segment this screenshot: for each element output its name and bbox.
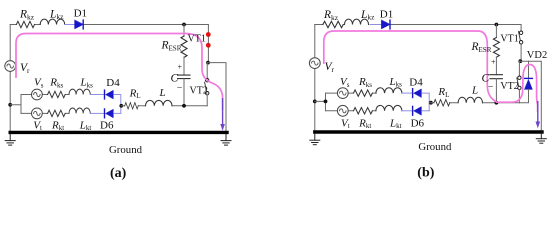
svg-text:D4: D4 xyxy=(409,77,423,89)
voltage source Vs (b) xyxy=(337,88,348,99)
wire: D1 anode lead (blue) xyxy=(65,24,75,26)
svg-text:Vr: Vr xyxy=(325,61,335,74)
svg-text:Ground: Ground xyxy=(418,141,452,153)
wire: capacitor bottom lead (b) xyxy=(495,79,497,103)
resistor Rks xyxy=(48,91,66,97)
switch VT1 upper contact (b, open) xyxy=(519,31,522,34)
switch VT2 upper lead xyxy=(206,63,208,79)
node M junction dot xyxy=(206,61,210,65)
wire: D4 lead (b, blue) xyxy=(402,92,413,94)
ground bus (a) xyxy=(10,131,227,134)
resistor Resr xyxy=(181,36,187,57)
svg-text:Rkz: Rkz xyxy=(19,9,35,22)
svg-text:Rkt: Rkt xyxy=(358,117,371,130)
svg-text:Rks: Rks xyxy=(49,77,63,90)
wire: phase-s branch (b) xyxy=(326,92,376,94)
resistor Rkt xyxy=(48,110,66,116)
svg-text:Lks: Lks xyxy=(389,76,403,89)
switch VT2 upper lead (b) xyxy=(518,61,520,76)
switch VT2 blade (open) xyxy=(205,82,207,91)
resistor Rks (b) xyxy=(354,90,373,96)
svg-text:−: − xyxy=(177,82,183,93)
svg-text:(a): (a) xyxy=(110,166,127,181)
node: capacitor bottom junction (b) xyxy=(495,101,499,105)
diode VD2 lower lead (b) xyxy=(519,89,528,102)
capacitor C xyxy=(178,75,190,79)
wire: load line segments (b) xyxy=(429,102,519,104)
diode D6 xyxy=(105,109,114,118)
wire: phase-s branch xyxy=(21,94,69,96)
svg-text:−: − xyxy=(488,82,494,93)
diode VD2 xyxy=(525,78,533,89)
svg-text:RL: RL xyxy=(129,87,141,100)
node: load node dot xyxy=(119,104,123,108)
svg-text:Lkz: Lkz xyxy=(49,8,64,21)
resistor RL xyxy=(125,103,139,109)
wire: top rail segments (b) xyxy=(315,24,521,26)
wire: D1 anode lead (b, blue) xyxy=(370,24,381,26)
svg-text:D6: D6 xyxy=(411,118,425,130)
switch VT2 blade (b, open) xyxy=(517,78,519,87)
diode D1 xyxy=(75,20,84,29)
switch VT1 contact dot upper (red, closed) xyxy=(206,32,211,37)
svg-text:Lkz: Lkz xyxy=(360,9,375,22)
switch VT2 upper contact (open) xyxy=(206,79,209,82)
diode VD2 upper lead (b) xyxy=(528,61,530,78)
wire: node M to right drop xyxy=(208,63,226,131)
switch VT2 lower lead (b) xyxy=(518,90,520,103)
wire: split to branch vertical (b) xyxy=(315,93,326,111)
current arrow (b) xyxy=(537,101,539,123)
switch VT1 lower contact (b, open) xyxy=(519,41,522,44)
node: top junction to Resr branch xyxy=(182,23,186,27)
ground symbol right (a) xyxy=(221,134,231,145)
svg-text:RL: RL xyxy=(437,86,449,99)
wire: capacitor bottom lead xyxy=(183,79,185,106)
svg-text:RESR: RESR xyxy=(161,40,182,53)
wire: left vertical rail (b) xyxy=(314,25,316,132)
wire: D6 lead (b, blue) xyxy=(402,110,413,112)
svg-text:L: L xyxy=(159,87,166,99)
wire: D6 output to mid node (b, blue) xyxy=(422,110,429,112)
svg-text:+: + xyxy=(491,57,496,66)
resistor Rkz (b) xyxy=(323,21,343,27)
wire: Resr to capacitor lead xyxy=(183,57,185,75)
svg-text:D4: D4 xyxy=(106,77,120,89)
svg-text:VT1: VT1 xyxy=(500,33,518,44)
wire: D4 output to mid node (blue) xyxy=(114,95,121,114)
svg-text:D6: D6 xyxy=(100,120,114,132)
svg-text:L: L xyxy=(471,85,478,97)
current arrow (a) xyxy=(222,98,224,125)
node: split junction on left rail (b) xyxy=(313,100,317,104)
ground symbol right (b) xyxy=(536,132,546,143)
resistor RL (b) xyxy=(434,100,450,106)
svg-text:RESR: RESR xyxy=(471,41,492,54)
svg-text:Rkt: Rkt xyxy=(51,119,64,132)
resistor Resr (b) xyxy=(493,38,499,58)
node: top junction to Resr branch (b) xyxy=(495,23,499,27)
diode D4 (b) xyxy=(413,89,422,98)
wire: Resr branch upper lead xyxy=(183,25,185,37)
resistor Rkz xyxy=(16,21,34,27)
wire: top rail segments (a) xyxy=(10,24,208,26)
svg-text:Lkt: Lkt xyxy=(79,119,92,132)
ground symbol left (a) xyxy=(5,134,15,145)
wire: phase-t branch xyxy=(21,112,69,114)
node: capacitor bottom junction xyxy=(182,104,186,108)
wire: D6 lead (blue) xyxy=(90,112,104,114)
wire: node M to right drop (b) xyxy=(520,61,541,131)
ground symbol left (b) xyxy=(310,134,320,145)
wire: D6 output to mid node (blue) xyxy=(114,112,121,114)
switch VT2 lower contact (open) xyxy=(206,92,209,95)
svg-text:VT2: VT2 xyxy=(500,81,518,92)
node: branch vertical dot (b) xyxy=(324,100,328,104)
svg-text:Vt: Vt xyxy=(33,119,42,132)
switch VT1 wire xyxy=(207,25,209,63)
svg-text:D1: D1 xyxy=(74,8,87,20)
wire: left vertical rail (a) xyxy=(9,25,11,132)
inductor L (b) xyxy=(458,97,482,102)
svg-text:Vs: Vs xyxy=(340,76,350,89)
voltage source Vr (b) xyxy=(309,58,320,69)
wire: D4 output to mid node (b, blue) xyxy=(422,93,429,111)
current path highlight (a) xyxy=(16,34,223,111)
svg-text:Vs: Vs xyxy=(34,77,44,90)
inductor Lkz xyxy=(40,19,64,24)
capacitor C (b) xyxy=(490,75,502,79)
svg-text:+: + xyxy=(178,63,183,72)
ground bus (b) xyxy=(315,130,542,133)
svg-text:Vt: Vt xyxy=(341,117,350,130)
voltage source Vt xyxy=(32,108,43,119)
wire: phase-t branch (b) xyxy=(326,110,376,112)
inductor Lkz (b) xyxy=(345,19,369,24)
diode D4 xyxy=(105,90,114,99)
diode D6 (b) xyxy=(413,106,422,115)
svg-text:Lks: Lks xyxy=(80,77,94,90)
switch VT1 contact dot lower (red, closed) xyxy=(206,43,211,48)
switch VT2 lower lead xyxy=(206,95,208,106)
voltage source Vr xyxy=(5,61,16,72)
wire: Resr to capacitor (b) xyxy=(495,57,497,75)
svg-text:VT2: VT2 xyxy=(190,85,208,96)
inductor L xyxy=(146,100,172,105)
current path highlight (b) xyxy=(324,31,538,112)
switch VT2 lower contact (b, open) xyxy=(518,86,521,89)
svg-text:VD2: VD2 xyxy=(527,50,547,61)
wire: load line segments xyxy=(121,105,207,107)
voltage source Vs xyxy=(32,89,43,100)
svg-text:Lkt: Lkt xyxy=(389,117,402,130)
svg-text:(b): (b) xyxy=(417,166,434,181)
resistor Rkt (b) xyxy=(354,108,373,114)
switch VT1 wire (b) xyxy=(520,25,522,62)
inductor Lkt xyxy=(69,108,90,113)
inductor Lks (b) xyxy=(376,88,402,93)
wire: D4 lead (blue) xyxy=(90,94,104,96)
diode D1 (b) xyxy=(381,20,390,29)
wire: split to branch vertical xyxy=(10,95,21,114)
svg-text:Rkz: Rkz xyxy=(323,9,339,22)
inductor Lks xyxy=(69,89,90,94)
switch VT1 blade (b, open) xyxy=(519,32,521,41)
inductor Lkt (b) xyxy=(376,105,402,110)
voltage source Vt (b) xyxy=(337,105,348,116)
node M junction dot (b) xyxy=(518,59,522,63)
svg-text:Rks: Rks xyxy=(358,76,372,89)
wire: Resr upper lead (b) xyxy=(495,25,497,38)
svg-text:D1: D1 xyxy=(380,9,393,21)
node: load node dot (b) xyxy=(429,101,433,105)
svg-text:Vr: Vr xyxy=(20,62,30,75)
svg-text:VT1: VT1 xyxy=(188,33,206,44)
node: split junction on left rail xyxy=(8,103,12,107)
svg-text:Ground: Ground xyxy=(109,144,143,156)
switch VT2 upper contact (b, open) xyxy=(518,76,521,79)
